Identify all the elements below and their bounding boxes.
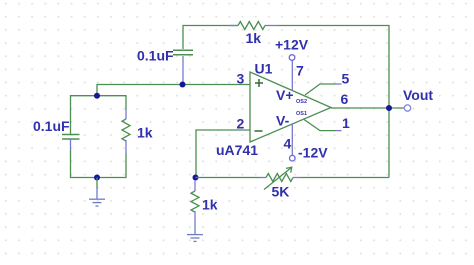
pin 2 number — [237, 116, 245, 132]
node junction RC bottom — [94, 175, 100, 181]
wire bottom feedback left segment — [196, 177, 261, 179]
ground (left tank) — [89, 178, 105, 207]
svg-text:0.1uF: 0.1uF — [137, 48, 174, 64]
op-amp U1 uA741 — [216, 61, 331, 159]
capacitor C2 0.1uF (left tank) — [33, 118, 80, 150]
pin 1 OS1 stub — [304, 115, 350, 131]
svg-text:6: 6 — [341, 91, 349, 107]
port Vout — [403, 87, 433, 111]
svg-text:+12V: +12V — [275, 37, 309, 53]
svg-text:1: 1 — [342, 115, 350, 131]
svg-text:uA741: uA741 — [216, 142, 258, 158]
pin 4 lead — [284, 124, 293, 155]
svg-text:4: 4 — [284, 136, 292, 152]
potentiometer R4 5K — [260, 167, 301, 199]
svg-text:3: 3 — [237, 71, 245, 87]
wire right vertical lower segment — [388, 108, 390, 178]
wire top feedback left segment — [183, 26, 238, 50]
svg-text:5K: 5K — [272, 184, 290, 200]
capacitor C1 0.1uF (top, series) — [137, 48, 193, 85]
resistor R1 1k (left tank) — [122, 110, 153, 153]
svg-text:5: 5 — [342, 71, 350, 87]
node junction RC top — [94, 93, 100, 99]
svg-text:1k: 1k — [202, 197, 218, 213]
node junction output — [386, 105, 392, 111]
svg-text:OS2: OS2 — [296, 99, 307, 105]
svg-text:7: 7 — [296, 63, 304, 79]
wire pin3 input net — [97, 85, 250, 96]
svg-text:2: 2 — [237, 116, 245, 132]
pin 3 number — [237, 71, 245, 87]
resistor R2 1k (top feedback) — [230, 22, 279, 47]
node junction bottom left — [193, 175, 199, 181]
wire RC tank loop — [71, 96, 127, 178]
wire pin 6 output net — [331, 91, 404, 108]
svg-text:-12V: -12V — [298, 145, 328, 161]
wire pin2 input net — [196, 130, 250, 178]
svg-text:Vout: Vout — [403, 87, 433, 103]
power +12V — [275, 37, 309, 61]
svg-text:V-: V- — [276, 113, 290, 129]
svg-text:V+: V+ — [276, 87, 294, 103]
ground (bottom) — [187, 222, 203, 241]
node junction below C1 — [180, 82, 186, 88]
svg-text:U1: U1 — [255, 61, 273, 77]
power -12V — [290, 145, 329, 162]
wire bottom feedback right segment — [301, 177, 390, 179]
resistor R3 1k (to ground) — [191, 180, 218, 222]
svg-text:1k: 1k — [137, 125, 153, 141]
svg-text:OS1: OS1 — [296, 111, 307, 117]
wire top feedback right segment — [279, 26, 390, 109]
svg-text:0.1uF: 0.1uF — [33, 118, 70, 134]
svg-text:1k: 1k — [246, 30, 262, 46]
pin 7 lead — [292, 61, 304, 91]
pin 5 OS2 stub — [305, 71, 350, 96]
